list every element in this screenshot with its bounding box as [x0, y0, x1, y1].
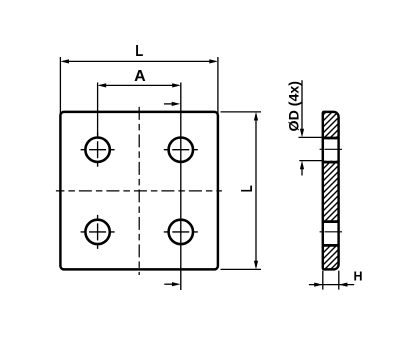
svg-text:A: A [134, 68, 146, 85]
svg-text:L: L [239, 185, 256, 192]
svg-text:H: H [353, 270, 362, 284]
svg-text:ØD (4x): ØD (4x) [286, 81, 302, 132]
svg-text:L: L [135, 43, 143, 60]
